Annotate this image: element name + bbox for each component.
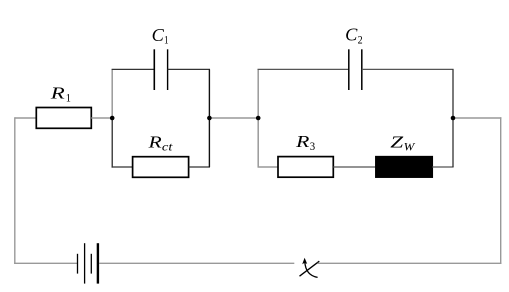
svg-text:1: 1 bbox=[66, 93, 71, 105]
wire ZW to block2 right bbox=[432, 166, 453, 168]
wire block2 bottom-left stub bbox=[258, 166, 279, 168]
battery B1 bbox=[78, 243, 98, 283]
resistor R3 bbox=[278, 132, 333, 177]
wire right stub from node to outer loop bbox=[453, 117, 501, 119]
wire block1 left vertical lower bbox=[111, 118, 113, 168]
svg-text:1: 1 bbox=[164, 35, 169, 47]
wire bottom middle segment bbox=[99, 262, 294, 264]
wire block1 left vertical upper bbox=[111, 69, 113, 118]
wire R3 to ZW bbox=[333, 166, 376, 168]
svg-text:3: 3 bbox=[310, 141, 316, 153]
capacitor C1 bbox=[152, 25, 169, 90]
wire block1 top-right bbox=[168, 68, 210, 70]
svg-text:R: R bbox=[147, 132, 162, 151]
wire left vertical bbox=[14, 117, 16, 264]
wire block1 top-left bbox=[112, 68, 155, 70]
svg-text:2: 2 bbox=[358, 35, 363, 47]
wire block2 right vertical bbox=[452, 69, 454, 167]
wire block1 bottom-right bbox=[189, 166, 210, 168]
wire block2 left vertical bbox=[257, 69, 259, 167]
resistor Rct bbox=[133, 132, 189, 177]
wire block2 top-left bbox=[258, 68, 349, 70]
switch S1 (arrow symbol) bbox=[300, 258, 320, 278]
node D (right junction of block2) bbox=[451, 116, 456, 121]
warburg element ZW bbox=[376, 133, 433, 178]
wire right vertical bbox=[500, 117, 502, 264]
wire left stub to R1 bbox=[15, 117, 37, 119]
wire R1 to node A bbox=[91, 117, 112, 119]
capacitor C2 bbox=[345, 25, 363, 90]
wire between blocks bbox=[209, 117, 258, 119]
svg-text:R: R bbox=[49, 84, 64, 103]
wire block2 top-right bbox=[362, 68, 454, 70]
wire block1 right vertical bbox=[208, 69, 210, 167]
node C (left junction of block2) bbox=[256, 116, 261, 121]
svg-text:ct: ct bbox=[162, 141, 174, 153]
svg-text:W: W bbox=[404, 141, 416, 153]
svg-text:R: R bbox=[295, 132, 310, 151]
resistor R1 bbox=[36, 84, 91, 129]
svg-text:C: C bbox=[152, 25, 165, 45]
node B (right junction of block1) bbox=[207, 116, 212, 121]
svg-text:C: C bbox=[345, 25, 358, 45]
svg-text:Z: Z bbox=[390, 133, 404, 152]
wire bottom right segment bbox=[318, 262, 502, 264]
node A (left junction of block1) bbox=[110, 116, 115, 121]
wire bottom left segment bbox=[14, 262, 77, 264]
wire block1 bottom-left bbox=[112, 166, 133, 168]
